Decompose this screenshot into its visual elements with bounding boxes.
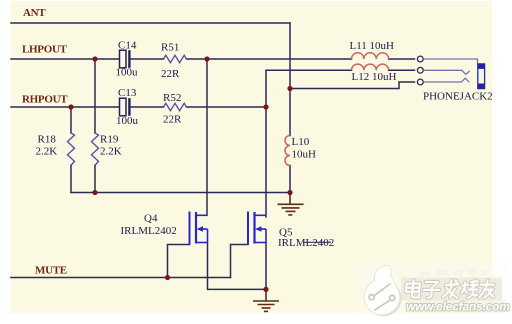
wire Q4 source (208, 243, 267, 289)
junction LHPOUT/R19 (92, 56, 97, 61)
svg-text:R19: R19 (100, 134, 119, 146)
svg-text:RHPOUT: RHPOUT (22, 94, 68, 106)
wire node A to L11 (207, 58, 352, 60)
wire R19 top (94, 59, 96, 133)
pin 1 circle (tip) (417, 56, 423, 62)
wire ground rail (71, 192, 290, 194)
wire Q5 drain (265, 107, 267, 217)
svg-text:ANT: ANT (23, 7, 46, 19)
svg-text:MUTE: MUTE (35, 265, 67, 277)
svg-text:C14: C14 (118, 40, 137, 52)
junction ANT/sleeve branch (287, 86, 292, 91)
connector PHONEJACK2 (417, 56, 492, 102)
resistor R52 (163, 92, 187, 126)
resistor R18 (36, 133, 75, 165)
wire R51 to node A (187, 58, 208, 60)
capacitor C13 (116, 87, 139, 127)
watermark plate (356, 262, 508, 314)
transistor Q4 (121, 212, 208, 245)
svg-text:C13: C13 (118, 87, 137, 99)
junction R19/ground rail (92, 190, 97, 195)
svg-text:100u: 100u (116, 115, 139, 127)
junction Q4/Q5 sources (263, 287, 268, 292)
jack ring switch contact (424, 70, 470, 74)
svg-text:2.2K: 2.2K (36, 146, 58, 158)
wire Q4 gate to MUTE (168, 245, 190, 278)
svg-text:IRLML2402: IRLML2402 (278, 237, 334, 249)
svg-text:PHONEJACK2: PHONEJACK2 (423, 90, 493, 102)
wire MUTE (11, 277, 231, 279)
wire R18 bottom (70, 165, 72, 192)
ground (sources of Q4/Q5) (253, 289, 279, 311)
wire L10 bottom to ground rail (289, 166, 291, 193)
svg-text:LHPOUT: LHPOUT (22, 44, 68, 56)
inductor L10 (285, 136, 316, 166)
capacitor C14 (116, 40, 139, 79)
watermark logo elecfans (364, 265, 402, 316)
wire R52 to node B (187, 106, 267, 108)
wire Q5 source (265, 243, 267, 289)
wire RHPOUT to C13 (11, 106, 120, 108)
jack body (478, 64, 485, 89)
junction ground rail/L10 (287, 190, 292, 195)
junction node A (R51/L11/Q4 drain) (204, 56, 209, 61)
wire C13 to R52 (131, 106, 164, 108)
svg-text:IRLML2402: IRLML2402 (121, 225, 177, 237)
watermark text 电子发烧友 (drawn as strokes) (405, 280, 495, 298)
svg-text:22R: 22R (161, 68, 180, 80)
jack sleeve switch contact (424, 78, 470, 82)
wire ANT node to L10 top (289, 89, 291, 136)
wire ANT horizontal (11, 22, 290, 24)
svg-text:L11 10uH: L11 10uH (350, 40, 395, 52)
wire R19 bottom (94, 165, 96, 192)
svg-text:2.2K: 2.2K (100, 146, 122, 158)
svg-text:R51: R51 (161, 41, 179, 53)
junction RHPOUT/R18 (68, 104, 73, 109)
ground (under L10) (278, 193, 304, 215)
wire node B up to L12 feed (266, 70, 352, 107)
wire MUTE to Q5 gate (231, 245, 249, 278)
wire LHPOUT to C14 (11, 58, 120, 60)
junction node B (R52/L12/Q5 drain) (263, 104, 268, 109)
pin 3 circle (sleeve) (417, 79, 423, 85)
resistor R19 (92, 133, 122, 165)
wire Q4 drain (206, 59, 208, 215)
svg-text:100u: 100u (116, 67, 139, 79)
jack tip contact line (424, 59, 478, 64)
resistor R51 (161, 41, 187, 80)
junction MUTE/Q4 gate (165, 275, 170, 280)
svg-text:L12 10uH: L12 10uH (352, 71, 397, 83)
svg-text:R52: R52 (163, 92, 181, 104)
wire L11 to jack tip pin (389, 58, 415, 60)
svg-text:R18: R18 (38, 134, 57, 146)
transistor Q5 (248, 212, 334, 250)
inductor L11 (350, 40, 395, 59)
pin 2 circle (ring) (417, 67, 423, 73)
svg-text:Q4: Q4 (144, 213, 158, 225)
wire sleeve branch to phone jack (290, 82, 415, 89)
svg-text:www.elecfans.com: www.elecfans.com (406, 300, 510, 314)
watermark ghost text fragments (420, 268, 487, 277)
wire C14 to R51 (131, 58, 164, 60)
svg-text:10uH: 10uH (292, 149, 317, 161)
wire ANT vertical drop (289, 23, 291, 89)
svg-text:22R: 22R (163, 114, 182, 126)
inductor L12 (352, 64, 397, 83)
svg-text:L10: L10 (292, 136, 310, 148)
wire R18 top (70, 107, 72, 133)
wire L12 to jack ring pin (389, 69, 415, 71)
